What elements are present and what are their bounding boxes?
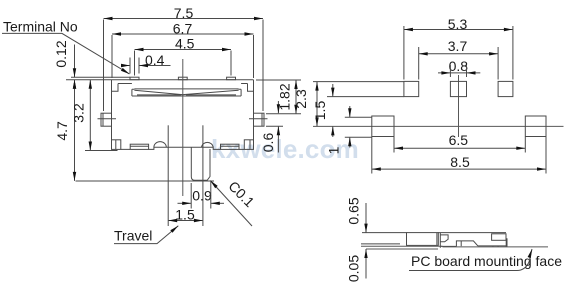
dim 4.5 extension left bbox=[134, 51, 136, 76]
dim 1.5 travel line bbox=[168, 220, 203, 222]
dim 4.7 bottom extension (stem bottom) bbox=[76, 180, 215, 182]
svg-text:Terminal No: Terminal No bbox=[3, 19, 78, 35]
pad top-middle bbox=[450, 81, 466, 96]
flange left lip bbox=[112, 80, 119, 92]
label PC board leader bbox=[409, 249, 532, 271]
terminal 1 (top left) bbox=[130, 77, 139, 80]
side view bottom tick 2 bbox=[497, 246, 499, 247]
dim 1 top extension bbox=[345, 116, 372, 118]
body left wall bbox=[111, 91, 113, 140]
side view inner wall bbox=[439, 233, 441, 248]
dim 0.8 line bbox=[438, 72, 480, 74]
flange bottom edge right segment bbox=[241, 83, 247, 85]
dim 1 lower arrow segment bbox=[349, 137, 351, 147]
flange bottom edge left segment bbox=[118, 83, 132, 85]
dim 1.5 travel extension left bbox=[167, 125, 169, 226]
dim 6.5 extension left bbox=[393, 137, 395, 153]
dim 0.4 left arrow segment bbox=[121, 65, 130, 67]
lid seam diagonal left bbox=[134, 90, 183, 95]
dim 0.6 bottom extension (tab bottom) bbox=[266, 125, 283, 127]
dim 1 bottom extension bbox=[345, 136, 372, 138]
label Travel leader bbox=[114, 226, 178, 244]
dim 6.7 extension right bbox=[253, 35, 255, 78]
dim 1 upper arrow segment bbox=[349, 106, 351, 117]
dim 1.5 lower arrow segment bbox=[332, 126, 334, 137]
dim 1.5 top extension bbox=[327, 96, 404, 98]
dim 0.4 extension right bbox=[138, 58, 140, 74]
footprint horizontal centerline bbox=[313, 125, 564, 127]
svg-text:0.6: 0.6 bbox=[260, 133, 276, 153]
side tab left center tick bbox=[98, 118, 117, 120]
dim 0.05 arrow segment bbox=[365, 249, 367, 279]
dim 6.5 extension right bbox=[524, 137, 526, 153]
dim 3.7 line bbox=[419, 53, 498, 55]
chamfer note C0.1 leader bbox=[210, 181, 252, 227]
side view slider bump bbox=[456, 241, 478, 247]
side view body box bbox=[407, 233, 439, 246]
pad bottom-right bbox=[525, 116, 546, 137]
pad top-left bbox=[404, 81, 419, 96]
dim 1.5 upper arrow segment bbox=[332, 84, 334, 97]
dim 8.5 extension right bbox=[545, 137, 547, 174]
cover lid outline bbox=[132, 89, 241, 96]
dim 4.7 line bbox=[74, 80, 76, 181]
body right wall bbox=[253, 91, 255, 140]
dim 0.65 arrow segment bbox=[365, 203, 367, 233]
bottom terminal left inner line bbox=[130, 145, 148, 147]
side view bottom tick 1 bbox=[492, 246, 494, 247]
dim 0.6 upper arrow segment bbox=[277, 101, 279, 113]
front view vertical centerline bbox=[182, 59, 184, 196]
label Terminal No leader bbox=[2, 33, 130, 74]
dim 6.7 line bbox=[112, 33, 254, 35]
svg-text:PC board mounting face: PC board mounting face bbox=[411, 253, 562, 269]
side view bottom double line bbox=[478, 245, 507, 247]
svg-text:0.8: 0.8 bbox=[449, 58, 469, 74]
front view: flange top edge + left extension bbox=[66, 79, 254, 81]
side view contact detail bbox=[440, 235, 448, 242]
dim 3.2 line bbox=[89, 80, 91, 151]
side tab right center tick bbox=[249, 118, 268, 120]
svg-text:2.3: 2.3 bbox=[293, 89, 309, 109]
dim 1.82 line bbox=[295, 80, 297, 114]
side view right end wall bbox=[506, 238, 508, 247]
side view body box inner edge bbox=[436, 233, 438, 246]
dim 5.3 extension left bbox=[403, 26, 405, 80]
svg-text:1.5: 1.5 bbox=[312, 101, 328, 121]
dim 3.7 extension left bbox=[418, 47, 420, 80]
footprint middle pad centerline bbox=[458, 75, 460, 137]
svg-text:0.65: 0.65 bbox=[346, 197, 362, 224]
svg-text:0.12: 0.12 bbox=[53, 40, 69, 67]
dim 0.9 right arrow segment bbox=[211, 202, 224, 204]
svg-text:3.2: 3.2 bbox=[71, 103, 87, 123]
dim 0.4 extension left bbox=[129, 58, 131, 74]
mounting face reference line lower bbox=[366, 248, 438, 250]
pad top-right bbox=[498, 81, 513, 96]
dim 1.5 travel extension right bbox=[202, 125, 204, 226]
bottom terminal right inner line bbox=[221, 145, 240, 147]
dim 0.4 right arrow segment bbox=[139, 65, 171, 67]
side view slider bump inner edge bbox=[460, 241, 462, 246]
dim 4.5 extension right bbox=[230, 51, 232, 76]
lid seam top edge bbox=[134, 88, 238, 90]
foot left bbox=[112, 140, 121, 150]
lid seam diagonal right bbox=[182, 90, 239, 95]
dim 1.82 bottom extension (tab top) bbox=[266, 113, 301, 115]
dim 0.8 tick right bbox=[466, 65, 468, 77]
front view: terminal-top extension line (left) bbox=[71, 76, 130, 78]
dim 3.7 extension right bbox=[497, 47, 499, 80]
svg-text:0.9: 0.9 bbox=[192, 187, 212, 203]
dim 0.8 tick left bbox=[449, 65, 451, 77]
dim 8.5 extension left bbox=[371, 137, 373, 174]
actuator stem bbox=[191, 147, 210, 180]
dim 1.82 top extension bbox=[256, 79, 301, 81]
side tab left bbox=[101, 113, 112, 126]
svg-text:Travel: Travel bbox=[114, 228, 152, 244]
dim 0.9 extension right bbox=[210, 181, 212, 209]
svg-text:1: 1 bbox=[326, 146, 342, 154]
pad bottom-left bbox=[372, 116, 394, 137]
svg-text:3.7: 3.7 bbox=[448, 38, 468, 54]
mounting face line bbox=[443, 246, 549, 248]
flange right lip bbox=[248, 80, 254, 92]
side view terminal lead top edge bbox=[362, 232, 407, 234]
side tab right inner edge bbox=[261, 113, 263, 126]
dim 7.5 extension left bbox=[103, 20, 105, 112]
terminal 2 (top middle) bbox=[178, 77, 187, 80]
dim 6.5 line bbox=[394, 147, 525, 149]
mounting face reference line upper bbox=[361, 245, 443, 247]
svg-text:8.5: 8.5 bbox=[450, 154, 470, 170]
dim 3.2 bottom extension bbox=[85, 150, 118, 152]
foot left inner edge bbox=[115, 140, 117, 150]
svg-text:0.05: 0.05 bbox=[346, 255, 362, 282]
side tab left inner edge bbox=[102, 113, 104, 126]
dim 5.3 extension right bbox=[512, 26, 514, 80]
side view bottom edge left segment bbox=[440, 245, 456, 247]
dim 2.3 line bbox=[316, 82, 318, 127]
bottom terminal left bbox=[130, 144, 148, 149]
terminal 3 (top right) bbox=[227, 77, 236, 80]
foot right bbox=[244, 140, 253, 150]
bottom terminal right bbox=[221, 144, 240, 149]
dim 0.9 left arrow segment bbox=[178, 202, 192, 204]
body bottom edge segments bbox=[121, 147, 245, 149]
foot right inner edge bbox=[249, 140, 251, 150]
side view knob box bbox=[492, 234, 506, 241]
dim 5.3 line bbox=[404, 29, 513, 31]
dim 0.6 lower arrow segment bbox=[277, 126, 279, 152]
dim 7.5 extension right bbox=[262, 20, 264, 112]
side view top edge right section bbox=[438, 232, 506, 234]
side view terminal lead bottom edge bbox=[361, 243, 400, 245]
dim 8.5 line bbox=[372, 168, 546, 170]
side tab right bbox=[254, 113, 265, 126]
locating dome right bbox=[202, 142, 214, 147]
svg-text:1.5: 1.5 bbox=[175, 206, 195, 222]
dim 0.12 lower arrow segment bbox=[74, 80, 76, 89]
dim 7.5 line bbox=[104, 18, 264, 20]
lid seam lower edge bbox=[137, 94, 236, 96]
dim 6.7 extension left bbox=[111, 35, 113, 78]
dim 0.9 extension left bbox=[190, 183, 192, 209]
dim 2.3 top extension bbox=[313, 81, 404, 83]
svg-text:6.5: 6.5 bbox=[449, 132, 469, 148]
locating dome left bbox=[154, 142, 166, 148]
svg-text:4.7: 4.7 bbox=[54, 121, 70, 141]
dim 4.5 line bbox=[135, 49, 232, 51]
dim 0.12 upper arrow segment bbox=[74, 45, 76, 78]
